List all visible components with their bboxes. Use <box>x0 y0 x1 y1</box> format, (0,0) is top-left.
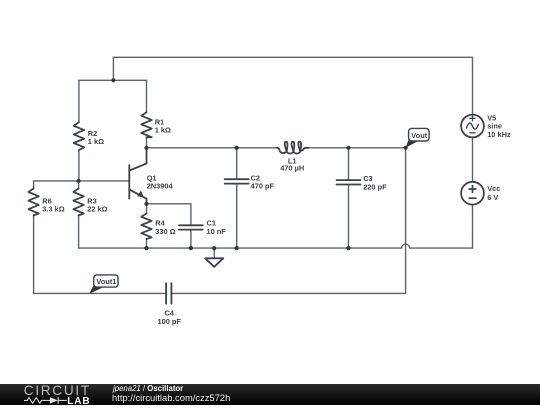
svg-text:470 pF: 470 pF <box>251 182 275 191</box>
svg-text:10 kHz: 10 kHz <box>487 130 511 139</box>
svg-text:330 Ω: 330 Ω <box>155 227 175 236</box>
svg-text:100 pF: 100 pF <box>157 317 181 326</box>
svg-text:1 kΩ: 1 kΩ <box>155 125 171 134</box>
svg-text:3.3 kΩ: 3.3 kΩ <box>42 205 64 214</box>
svg-text:220 pF: 220 pF <box>363 183 387 192</box>
svg-text:Vout1: Vout1 <box>96 277 116 286</box>
svg-text:LAB: LAB <box>67 396 90 405</box>
svg-text:2N3904: 2N3904 <box>147 181 174 190</box>
svg-text:470 µH: 470 µH <box>280 164 304 173</box>
svg-text:1 kΩ: 1 kΩ <box>88 137 104 146</box>
svg-text:10 nF: 10 nF <box>207 227 227 236</box>
svg-text:6 V: 6 V <box>487 193 498 202</box>
svg-text:Vout: Vout <box>411 131 427 140</box>
svg-text:22 kΩ: 22 kΩ <box>87 205 107 214</box>
